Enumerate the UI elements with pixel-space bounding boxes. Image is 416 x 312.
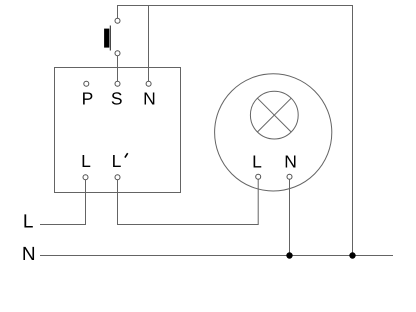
svg-text:N: N <box>143 88 156 108</box>
junction dot lamp N <box>286 252 292 258</box>
switch S1 actuator <box>104 29 109 48</box>
lamp terminal N <box>287 174 292 179</box>
accent of L´ <box>125 153 128 157</box>
lamp bulb symbol <box>250 91 298 139</box>
terminal L´ <box>115 175 120 180</box>
terminal S <box>115 81 120 86</box>
svg-text:N: N <box>284 152 297 172</box>
lamp housing circle <box>215 74 332 191</box>
lamp bulb cross line 1 <box>257 98 291 132</box>
junction dot right feed <box>349 252 355 258</box>
svg-text:S: S <box>111 88 123 108</box>
wire top horizontal feed <box>117 5 353 7</box>
svg-text:L: L <box>81 151 91 171</box>
wire right vertical to N bus <box>352 5 354 256</box>
wire mains L up to sensor terminal L <box>40 180 86 225</box>
wire lamp N down to N bus <box>289 179 291 255</box>
switch S1 contact bottom <box>115 51 120 56</box>
switch S1 contact top <box>115 18 120 23</box>
svg-text:L: L <box>252 152 262 172</box>
lamp bulb cross line 2 <box>257 98 291 132</box>
svg-text:P: P <box>82 88 94 108</box>
wire top feed down to switch <box>117 6 119 19</box>
svg-text:L: L <box>23 212 34 233</box>
svg-text:L: L <box>112 151 122 171</box>
terminal L <box>83 175 88 180</box>
svg-text:N: N <box>22 244 36 265</box>
wire N bus <box>40 255 393 257</box>
terminal P <box>84 81 89 86</box>
switch S1 lever <box>109 26 111 51</box>
wire sensor terminal L´ to lamp terminal L <box>118 179 259 224</box>
motion sensor box U1 <box>55 68 181 193</box>
lamp terminal L <box>256 174 261 179</box>
terminal N <box>146 81 151 86</box>
wire switch to sensor terminal S <box>117 56 119 82</box>
wire drop from top feed to sensor terminal N <box>148 6 150 82</box>
